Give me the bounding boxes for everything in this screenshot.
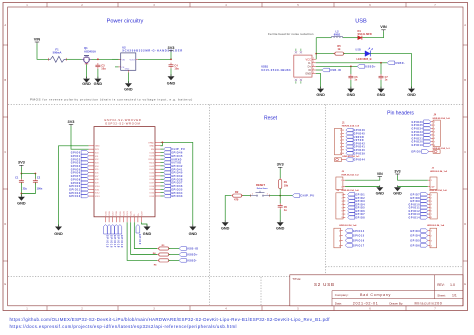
global label GPIO17 (module bottom): [111, 225, 116, 248]
ground below C7: [377, 87, 386, 98]
svg-text:REV:: REV:: [437, 283, 444, 287]
svg-text:2021-02-01: 2021-02-01: [353, 302, 379, 306]
svg-text:10u: 10u: [174, 66, 179, 70]
svg-text:1: 1: [340, 130, 341, 132]
wire bottom pin to middle ground: [142, 222, 148, 226]
wire C3 to ground: [97, 69, 99, 79]
capacitor C4 value: [174, 66, 179, 70]
global label U0RXD (module right): [164, 157, 182, 161]
wire VIN to fuse F1: [37, 43, 49, 59]
global label GPIO46 (J1 pin 1): [346, 128, 366, 132]
svg-text:USBD-: USBD-: [395, 62, 405, 65]
svg-text:GND: GND: [347, 93, 356, 97]
svg-text:Bad Company: Bad Company: [360, 293, 391, 297]
title block REV: [437, 283, 455, 287]
svg-text:3V3: 3V3: [168, 45, 176, 50]
global label GPIO16 (module bottom): [107, 225, 112, 248]
section title: USB: [355, 19, 367, 25]
svg-text:8: 8: [434, 145, 435, 147]
transistor Q1 reference: [84, 46, 88, 50]
section title: Pin headers: [387, 110, 414, 116]
global label GPIO8 (J7 pin 2): [410, 196, 428, 200]
global label GPIO18 (module bottom): [114, 225, 119, 248]
svg-text:8: 8: [340, 153, 341, 155]
global label GPIO15 (J6 pin 2): [345, 234, 365, 238]
ground below Q1: [82, 77, 91, 87]
connector J5 header 1x2 power: [336, 177, 345, 190]
connector JP1 header 1x1: [335, 158, 346, 162]
global label USB-ID (bottom): [179, 247, 199, 251]
global label GPIO21 (J4 pin 6): [412, 136, 431, 140]
global label USBD-: [387, 61, 405, 65]
svg-text:Date:: Date:: [335, 301, 342, 305]
global label GPIO5 (module left): [71, 167, 89, 171]
wire bottom pin to R4: [131, 222, 158, 254]
svg-text:GPIO15: GPIO15: [106, 235, 109, 248]
wire R3 to label: [169, 248, 180, 250]
global label GPIO0 (module left): [71, 151, 89, 155]
svg-text:GND: GND: [82, 82, 91, 86]
global label GPIO19 (J4 pin 8): [412, 143, 431, 147]
junction at C4: [170, 58, 172, 60]
global label GPIO46 (module right): [164, 151, 183, 155]
global label GPIO16 (J6 pin 3): [345, 239, 365, 243]
svg-text:D-: D-: [134, 213, 136, 216]
svg-text:3V3: 3V3: [394, 169, 400, 173]
svg-text:VIN: VIN: [122, 59, 126, 61]
wire USB GND pin to ground: [316, 74, 321, 89]
svg-text:7: 7: [434, 141, 435, 143]
global label GPIO26 (J4 pin 5): [412, 133, 431, 137]
svg-text:1: 1: [252, 193, 253, 195]
regulator U2 reference: [122, 45, 126, 49]
svg-text:GPIO14: GPIO14: [408, 216, 420, 219]
global label USBD+: [357, 65, 376, 69]
connector J5 reference: [342, 171, 345, 173]
svg-text:4: 4: [339, 245, 340, 247]
junction C2: [35, 173, 37, 175]
fuse F1 reference: [55, 47, 59, 51]
wire VIN to diode D1: [362, 31, 383, 38]
svg-text:ESP32-S2-WROOM: ESP32-S2-WROOM: [105, 122, 140, 126]
global label GPIO11 (J7 pin 5): [409, 206, 428, 210]
capacitor C2 reference: [37, 177, 41, 180]
section title: Power circuitry: [107, 19, 144, 25]
wire reset node to CHIP_PU label: [280, 195, 292, 197]
connector J2 header 1x8: [336, 193, 345, 219]
svg-text:4: 4: [313, 68, 314, 70]
svg-text:5: 5: [340, 143, 341, 145]
global label GPIO12 (J7 pin 6): [408, 209, 427, 213]
wire C7 to ground: [380, 80, 382, 88]
svg-text:GND: GND: [54, 232, 63, 236]
resistor R6 (USBD- series): [157, 259, 170, 262]
svg-text:2: 2: [434, 125, 435, 127]
ground below C1 C2: [17, 195, 26, 206]
connector J1 reference: [342, 122, 345, 124]
junction D+ / C6: [350, 66, 352, 68]
wire module pin GPIO33: [160, 195, 163, 197]
resistor R2 reference: [235, 190, 239, 194]
svg-text:GPIO17: GPIO17: [113, 235, 116, 248]
svg-text:EPAD: EPAD: [148, 141, 154, 144]
wire U2 GND pin to ground: [127, 73, 129, 84]
global label GPIO11 (module left): [69, 188, 89, 192]
global label GPIO41 (module right): [164, 167, 183, 171]
svg-text:3: 3: [339, 240, 340, 242]
global label GPIO4 (module left): [71, 164, 89, 168]
svg-text:GND: GND: [377, 93, 386, 97]
svg-text:GND: GND: [221, 227, 230, 231]
switch SW1 RESET text: [256, 183, 265, 187]
note: ferrite bead: [268, 32, 314, 36]
wire into U2 VIN: [112, 58, 119, 60]
global label GPIO8 (module left): [71, 178, 89, 182]
junction at C3: [97, 58, 99, 60]
LED D2 value text: [357, 57, 372, 61]
svg-text:HDR-M-2.54_1x8: HDR-M-2.54_1x8: [342, 125, 360, 128]
svg-text:10k: 10k: [284, 184, 289, 188]
svg-text:GPIO6: GPIO6: [410, 244, 420, 247]
global label GPIO8 (J2 pin 8): [348, 216, 366, 220]
connector J7 header 1x8: [428, 193, 437, 219]
wire module pin GPIO42: [160, 165, 163, 167]
svg-text:GND: GND: [189, 232, 198, 236]
wire D+ net: [316, 65, 358, 67]
svg-text:7: 7: [431, 214, 432, 216]
ferrite bead L2 value: [334, 33, 340, 37]
svg-text:AO3401A: AO3401A: [84, 49, 96, 53]
global label GPIO34 (module right): [164, 191, 183, 195]
wire J3 pin1 to 3V3: [398, 175, 428, 180]
svg-text:GPIO0: GPIO0: [138, 234, 141, 245]
wire module pin GPIO40: [160, 172, 163, 174]
global label GPIO42 (J1 pin 5): [346, 141, 366, 145]
svg-text:4: 4: [431, 204, 432, 206]
global label GPIO0 (JP2): [411, 150, 429, 154]
module right pins: [148, 141, 160, 198]
svg-text:10u: 10u: [101, 67, 106, 71]
diode D1 SS14L MFD: [358, 36, 362, 40]
svg-text:HDR-M-2.54_1x8: HDR-M-2.54_1x8: [433, 117, 451, 120]
wire U2 CE stub: [115, 66, 119, 68]
svg-text:VOUT: VOUT: [129, 59, 135, 61]
wire C2 to ground node: [21, 183, 35, 194]
svg-text:2: 2: [431, 235, 432, 237]
global label GPIO41 (J1 pin 6): [346, 145, 366, 149]
global label USBD+ (bottom): [179, 253, 198, 257]
title block title S2 USB: [314, 282, 335, 287]
svg-text:Debo 6mm: Debo 6mm: [257, 188, 268, 190]
svg-text:HDR-M-2.54_1x8: HDR-M-2.54_1x8: [342, 189, 360, 192]
wire LED to ground: [370, 54, 411, 89]
wire L2 to D1: [343, 37, 358, 39]
svg-text:GND: GND: [143, 232, 152, 236]
resistor R6 reference: [154, 264, 158, 266]
svg-text:5: 5: [431, 207, 432, 209]
global label GPIO44 (JP1): [346, 158, 366, 162]
svg-text:GND: GND: [316, 93, 325, 97]
global label GPIO39 (J1 pin 8): [346, 151, 366, 155]
svg-text:3V3: 3V3: [68, 119, 76, 124]
power flag 3V3 (J3): [394, 169, 400, 175]
svg-text:Ferrite bead for noise reducti: Ferrite bead for noise reduction: [268, 32, 314, 36]
svg-text:5: 5: [434, 135, 435, 137]
wire Q1 gate to ground: [86, 64, 88, 78]
junction reset node: [279, 195, 281, 197]
svg-text:HDR-M-2.54_1x4: HDR-M-2.54_1x4: [427, 224, 445, 227]
svg-text:LED 0605_B: LED 0605_B: [357, 57, 372, 61]
wire module pin U0TXD: [160, 162, 163, 164]
connector J2 value: [342, 189, 360, 192]
global label GPIO0 (module bottom): [136, 225, 141, 245]
global label GPIO42 (module right): [164, 164, 183, 168]
svg-text:GND: GND: [276, 227, 285, 231]
wire module pin GPIO39: [160, 175, 163, 177]
wire module 3V3 pin up: [71, 126, 89, 149]
svg-text:1/1: 1/1: [452, 294, 457, 298]
svg-text:PMOS for reverse polarity prot: PMOS for reverse polarity protection (dr…: [30, 98, 193, 102]
svg-text:7: 7: [341, 214, 342, 216]
switch SW1 RESET pushbutton: [251, 191, 270, 197]
svg-text:7: 7: [340, 150, 341, 152]
svg-text:D-: D-: [308, 61, 311, 65]
capacitor C5 value: [284, 208, 287, 212]
global label GPIO6 (J2 pin 6): [348, 209, 366, 213]
resistor R1 10k: [279, 178, 282, 190]
global label GPIO1 (J2 pin 1): [348, 193, 366, 197]
capacitor C3 plates: [95, 63, 100, 69]
junction C1: [21, 173, 23, 175]
svg-text:GPIO16: GPIO16: [109, 235, 112, 248]
connector J8 value: [427, 224, 445, 227]
wire R2 to switch: [242, 195, 251, 197]
capacitor C2 value: [37, 187, 43, 190]
title block: [290, 275, 463, 306]
svg-text:CHIP_PU: CHIP_PU: [300, 195, 314, 198]
svg-text:https://docs.espressif.com/pro: https://docs.espressif.com/projects/esp-…: [10, 324, 237, 329]
svg-text:1: 1: [313, 58, 314, 60]
svg-text:3: 3: [431, 240, 432, 242]
connector J1 value: [342, 125, 360, 128]
wire module pin GPIO37: [160, 182, 163, 184]
svg-text:22u: 22u: [23, 187, 28, 190]
svg-text:3: 3: [341, 201, 342, 203]
title block date drawn by: [335, 301, 443, 305]
module U1 ESP32-S2-WROVER: [94, 118, 155, 217]
global label GPIO39 (module right): [164, 174, 183, 178]
global label GPIO35 (J4 pin 2): [412, 123, 431, 127]
ground left below module: [54, 225, 63, 236]
connector J3 header 1x2 power: [428, 177, 437, 190]
svg-text:VCC: VCC: [306, 57, 312, 61]
connector J4 reference: [434, 114, 437, 117]
svg-text:USBD+: USBD+: [365, 66, 376, 69]
svg-text:USB: USB: [355, 19, 367, 25]
connector J3 value: [430, 170, 448, 173]
wire EPAD to ground: [160, 142, 192, 226]
svg-text:3V3: 3V3: [18, 160, 26, 165]
svg-text:2: 2: [339, 235, 340, 237]
capacitor C3 value: [101, 67, 106, 71]
global label GPIO35 (module right): [164, 188, 183, 192]
wire to R5: [316, 53, 335, 55]
svg-text:Pin headers: Pin headers: [387, 110, 414, 116]
svg-text:https://github.com/OLIMEX/ESP3: https://github.com/OLIMEX/ESP32-S2-DevKi…: [10, 317, 331, 322]
svg-text:500mA: 500mA: [53, 51, 62, 55]
svg-text:GND: GND: [95, 146, 100, 148]
svg-text:USB: USB: [355, 48, 361, 52]
power flag 3V3 at C1 C2: [18, 160, 26, 167]
connector J2 reference: [337, 190, 340, 192]
svg-text:4: 4: [431, 245, 432, 247]
svg-text:HDR-M-2.54_1x8: HDR-M-2.54_1x8: [430, 189, 448, 192]
global label GPIO6 (J8 pin 4): [410, 244, 428, 248]
ground below C4: [167, 74, 176, 85]
svg-text:HDR-M-2.54_1x1: HDR-M-2.54_1x1: [433, 147, 451, 150]
wire C5 to ground: [279, 209, 281, 222]
hyperlink note espressif docs: [10, 324, 237, 329]
global label GPIO10 (module left): [69, 184, 89, 188]
fuse F1 value: [53, 51, 62, 55]
capacitor C1 reference: [15, 177, 19, 180]
resistor R1 reference: [284, 180, 288, 184]
global label GPIO20 (J4 pin 7): [412, 140, 431, 144]
svg-text:GPIO3: GPIO3: [410, 230, 420, 233]
wire into C2: [34, 174, 36, 179]
global label GPIO15 (module bottom): [104, 225, 109, 248]
ground left reset: [221, 220, 230, 230]
svg-text:1: 1: [339, 231, 340, 233]
global label GPIO7 (J7 pin 1): [410, 193, 428, 197]
svg-text:TITLE:: TITLE:: [292, 277, 301, 281]
diode D1 reference: [358, 29, 362, 33]
svg-text:3: 3: [313, 65, 314, 67]
svg-text:8: 8: [431, 217, 432, 219]
svg-text:GND: GND: [17, 202, 26, 206]
wire module pin GPIO45: [160, 155, 163, 157]
power flag 3V3 at module: [68, 119, 76, 126]
svg-text:GND: GND: [124, 87, 133, 91]
svg-text:VIN: VIN: [380, 24, 387, 29]
svg-text:6: 6: [341, 211, 342, 213]
svg-text:100n: 100n: [37, 187, 43, 190]
global label GPIO2 (J2 pin 2): [348, 196, 366, 200]
global label GPIO45 (J1 pin 2): [346, 132, 366, 136]
capacitor C5 plates: [278, 203, 283, 209]
svg-text:GPIO4: GPIO4: [410, 235, 420, 238]
connector J3 reference: [432, 168, 435, 170]
ground right below module: [189, 225, 198, 236]
ground below USB1: [316, 87, 325, 98]
connector J8 header 1x4: [428, 228, 437, 248]
USB1 reference: [261, 64, 268, 68]
svg-text:Sheet:: Sheet:: [437, 294, 446, 298]
wire R1 to reset node: [279, 189, 281, 196]
ferrite bead L2 600ohm: [331, 36, 343, 37]
svg-text:SS14L MFD: SS14L MFD: [358, 32, 372, 36]
wire VCC vertical: [315, 38, 317, 60]
wire module GND pin to ground rail: [59, 146, 89, 227]
LED D2 blue USB indicator: [365, 47, 372, 56]
global label GPIO1 (module left): [71, 154, 89, 158]
power flag VIN (input): [34, 36, 41, 43]
svg-text:1: 1: [341, 180, 342, 182]
wire down to C7: [380, 63, 382, 74]
svg-text:1: 1: [431, 194, 432, 196]
svg-text:GPIO13: GPIO13: [69, 195, 81, 198]
svg-text:GPIO5: GPIO5: [410, 240, 420, 243]
ferrite bead L2 reference: [335, 29, 339, 33]
svg-text:GND: GND: [305, 72, 311, 76]
svg-text:Miraculix200: Miraculix200: [415, 302, 443, 306]
junction D- / C7: [380, 62, 382, 64]
svg-text:R2: R2: [235, 190, 239, 194]
svg-text:USB-ID: USB-ID: [330, 69, 341, 72]
global label GPIO17 (J6 pin 4): [345, 244, 365, 248]
capacitor C1 value: [23, 187, 28, 190]
svg-text:2: 2: [340, 133, 341, 135]
connector JP2 value: [433, 147, 451, 150]
svg-text:HDR-M-2.54_1x2: HDR-M-2.54_1x2: [430, 170, 448, 173]
svg-text:3: 3: [431, 201, 432, 203]
power flag 3V3 reset: [277, 162, 285, 169]
svg-text:GPIO14: GPIO14: [353, 230, 365, 233]
global label GPIO37 (module right): [164, 181, 183, 185]
resistor R5 1k: [333, 52, 345, 55]
transistor Q1 value: [84, 49, 96, 53]
svg-text:1u: 1u: [284, 208, 287, 212]
wire R6 to label: [169, 259, 180, 261]
wire bottom pin to R6: [127, 222, 157, 260]
global label GPIO6 (module left): [71, 171, 89, 175]
resistor R4 (USBD+ series): [157, 253, 170, 256]
global label GPIO10 (J7 pin 4): [408, 202, 427, 206]
hyperlink note github OLIMEX: [10, 317, 331, 322]
resistor R5 value: [338, 47, 341, 51]
global label CHIP_PU at EN: [164, 147, 186, 151]
net label USB: [355, 48, 361, 52]
capacitor C6 reference: [354, 76, 358, 79]
USB1 value: [261, 68, 291, 72]
junction ground node C1 C2: [21, 193, 23, 195]
title block company: [335, 293, 391, 297]
global label GPIO4 (J8 pin 2): [410, 234, 428, 238]
regulator U2 XC6209B332MR-G: [119, 53, 139, 73]
ground at J5: [376, 185, 385, 195]
ground below C6: [347, 87, 356, 98]
svg-text:GPIO33: GPIO33: [171, 195, 183, 198]
capacitor C4 plates: [169, 63, 174, 69]
svg-text:2: 2: [431, 198, 432, 200]
global label U0TXD (J1 pin 4): [346, 138, 364, 142]
global label USB-ID: [322, 68, 341, 72]
svg-text:GND: GND: [94, 82, 103, 86]
global label GPIO3 (J2 pin 3): [348, 199, 366, 203]
connector J7 value: [430, 189, 448, 192]
global label USBD- (bottom): [179, 259, 197, 263]
wire 3V3 flag down: [170, 52, 172, 59]
global label GPIO36 (J4 pin 1): [412, 120, 431, 124]
svg-text:3V3: 3V3: [277, 162, 285, 167]
svg-text:2: 2: [341, 198, 342, 200]
svg-text:S2 USB: S2 USB: [314, 282, 335, 287]
capacitor C6 plates: [348, 74, 353, 80]
svg-text:Company:: Company:: [335, 293, 349, 297]
svg-text:GND: GND: [125, 69, 130, 71]
resistor R1 value: [284, 184, 289, 188]
module left pins: [89, 146, 101, 198]
